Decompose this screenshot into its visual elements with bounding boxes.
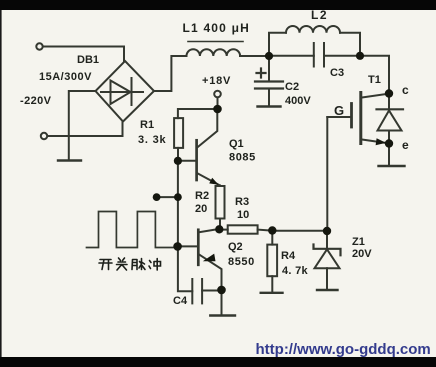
svg-text:C2: C2	[285, 81, 299, 93]
svg-text:400V: 400V	[285, 95, 311, 107]
svg-text:e: e	[402, 138, 409, 152]
svg-text:DB1: DB1	[77, 54, 99, 66]
svg-text:8550: 8550	[228, 256, 255, 268]
svg-text:R2: R2	[195, 190, 209, 202]
svg-text:c: c	[402, 83, 409, 97]
svg-text:L2: L2	[311, 8, 328, 22]
svg-text:-220V: -220V	[20, 95, 52, 107]
svg-text:8085: 8085	[229, 152, 256, 164]
svg-text:T1: T1	[368, 74, 381, 86]
svg-text:R4: R4	[281, 250, 296, 262]
svg-text:10: 10	[237, 209, 249, 221]
svg-text:20: 20	[195, 203, 207, 215]
svg-text:Q2: Q2	[228, 241, 243, 253]
svg-text:Q1: Q1	[229, 138, 244, 150]
svg-text:L1 400 μH: L1 400 μH	[183, 21, 251, 35]
svg-text:C4: C4	[173, 295, 188, 307]
svg-text:+18V: +18V	[202, 75, 231, 87]
svg-text:4. 7k: 4. 7k	[282, 265, 309, 277]
svg-text:15A/300V: 15A/300V	[39, 71, 92, 83]
svg-text:20V: 20V	[352, 248, 372, 260]
svg-text:3. 3k: 3. 3k	[138, 134, 167, 146]
svg-text:G: G	[334, 103, 344, 118]
svg-text:Z1: Z1	[352, 236, 365, 248]
svg-text:C3: C3	[330, 67, 344, 79]
svg-text:R1: R1	[140, 119, 154, 131]
svg-text:http://www.go-gddq.com: http://www.go-gddq.com	[256, 341, 431, 358]
svg-text:R3: R3	[235, 196, 249, 208]
